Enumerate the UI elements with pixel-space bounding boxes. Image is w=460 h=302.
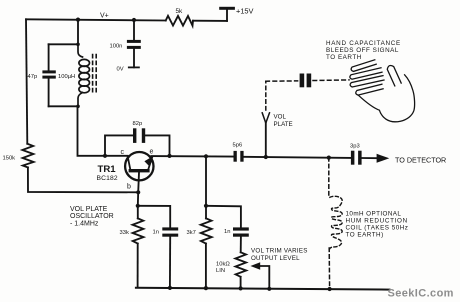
wire 33k bottom lead — [137, 244, 139, 288]
wire base lead down — [137, 173, 140, 193]
wire 82p right leg — [145, 135, 169, 156]
svg-text:10kΩ: 10kΩ — [216, 262, 230, 268]
svg-text:100n: 100n — [110, 44, 123, 50]
node tank bottom — [76, 105, 80, 109]
transistor Q1 collector line — [128, 156, 131, 169]
wire top rail right segment — [193, 20, 227, 22]
capacitor C1 47p — [42, 70, 55, 73]
svg-text:HUM REDUCTION: HUM REDUCTION — [346, 218, 408, 225]
wire tank top bar — [49, 43, 78, 45]
node rail 1n — [168, 286, 172, 290]
wire 3k7 bottom lead — [205, 244, 207, 289]
wire base node down — [137, 192, 139, 206]
node rail hum coil — [328, 287, 332, 291]
svg-text:VOL TRIM VARIES: VOL TRIM VARIES — [251, 248, 308, 255]
vol plate arrowhead — [262, 113, 269, 123]
inductor L2 hum reduction coil dashed — [330, 196, 342, 248]
wire 82p left leg — [105, 135, 133, 155]
resistor R2 150k — [22, 144, 33, 168]
node emitter branch junction — [204, 154, 208, 158]
potentiometer VR1 10k LIN — [235, 252, 246, 276]
svg-text:0V: 0V — [117, 66, 124, 72]
node rail 3k7 — [204, 286, 208, 290]
svg-text:PLATE: PLATE — [274, 121, 293, 128]
capacitor C5 5p6 — [234, 151, 237, 162]
pot wiper arrow — [250, 262, 260, 269]
node base-150k junction — [136, 190, 140, 194]
wire dashed to hand cap — [266, 80, 298, 82]
svg-text:OUTPUT LEVEL: OUTPUT LEVEL — [251, 255, 300, 262]
wire 100n bottom lead — [133, 49, 135, 67]
ground terminal 0V bar — [128, 67, 140, 69]
svg-text:e: e — [150, 149, 154, 156]
svg-text:100µH: 100µH — [58, 74, 75, 80]
node junction on rail at 100n — [132, 18, 136, 22]
capacitor C2 100n — [127, 40, 141, 43]
transistor Q1 emitter line — [148, 157, 152, 169]
node 82p right junction — [167, 154, 171, 158]
svg-text:82p: 82p — [133, 121, 143, 127]
wire emitter to 5p6 — [151, 155, 233, 158]
svg-text:10mH OPTIONAL: 10mH OPTIONAL — [346, 211, 402, 218]
svg-text:TO EARTH): TO EARTH) — [346, 232, 384, 239]
wire 3k7 top lead — [205, 206, 207, 219]
capacitor hand capacitance — [300, 74, 305, 88]
svg-text:TO DETECTOR: TO DETECTOR — [395, 156, 446, 165]
svg-text:COIL (TAKES 50Hz: COIL (TAKES 50Hz — [346, 225, 409, 232]
svg-text:LIN: LIN — [216, 268, 225, 274]
resistor R3 33k — [133, 218, 144, 243]
wire +15V riser — [226, 9, 228, 21]
wire tank bottom bar — [49, 105, 78, 107]
wire dashed hum coil top — [328, 158, 330, 196]
svg-text:V+: V+ — [100, 13, 109, 20]
node rail wiper — [267, 287, 271, 291]
svg-text:1n: 1n — [153, 230, 159, 236]
wire pot bottom lead — [240, 277, 242, 289]
transistor Q1 emitter arrow — [144, 157, 152, 166]
svg-text:5k: 5k — [176, 8, 184, 15]
node 3k7/1n junction — [204, 204, 208, 208]
svg-text:150k: 150k — [3, 156, 16, 162]
svg-text:HAND CAPACITANCE: HAND CAPACITANCE — [326, 40, 401, 47]
node 33k/1n junction — [136, 204, 140, 208]
wire 1n2 to pot — [240, 237, 242, 253]
svg-text:- 1.4MHz: - 1.4MHz — [70, 220, 99, 227]
wire bottom rail — [136, 288, 390, 290]
svg-text:TO EARTH: TO EARTH — [326, 54, 362, 61]
wire 47p lower lead — [48, 79, 50, 107]
svg-text:BLEEDS OFF SIGNAL: BLEEDS OFF SIGNAL — [326, 47, 399, 54]
wire 3p3 to detector arrow — [362, 157, 378, 159]
wire wiper to rail — [260, 266, 270, 289]
svg-text:33k: 33k — [120, 230, 129, 236]
wire collector drop from tank — [78, 106, 128, 156]
wire 33k top lead — [137, 206, 139, 219]
capacitor C6 3p3 — [351, 151, 355, 165]
wire emitter branch down — [205, 156, 207, 206]
node 82p left junction — [103, 154, 107, 158]
node rail pot — [239, 286, 243, 290]
transistor Q1 base bar — [129, 169, 150, 172]
node tank top — [76, 43, 80, 47]
svg-text:TR1: TR1 — [98, 164, 117, 175]
svg-text:BC182: BC182 — [97, 175, 118, 182]
svg-text:c: c — [121, 149, 125, 156]
svg-text:+15V: +15V — [236, 6, 254, 15]
svg-text:47p: 47p — [28, 74, 38, 80]
wire 100n top lead — [133, 20, 135, 40]
capacitor C4 1n — [162, 227, 178, 230]
svg-text:3p3: 3p3 — [350, 144, 360, 150]
vol plate antenna line — [265, 123, 267, 157]
hand drawing — [350, 60, 415, 122]
wire 5p6 to 3p3 — [244, 157, 351, 158]
node hum coil junction — [327, 156, 331, 160]
wire 47p upper lead — [48, 44, 50, 70]
wire tank top drop — [77, 20, 79, 45]
wire left rail down — [26, 19, 27, 143]
wire dashed cap to hand — [313, 79, 349, 82]
wire dashed vol plate up — [265, 81, 267, 110]
node vol plate junction — [264, 155, 268, 159]
wire 1n bottom lead — [169, 237, 171, 288]
wire dashed hum coil bottom — [328, 248, 330, 289]
node junction on rail at tank — [76, 18, 80, 22]
svg-text:b: b — [127, 184, 131, 191]
power terminal +15V bar — [219, 7, 235, 10]
svg-text:VOL: VOL — [274, 114, 287, 121]
wire 1n bar from base node — [138, 206, 170, 228]
inductor L1 core marks — [93, 55, 97, 95]
capacitor C7 1n — [233, 227, 249, 230]
capacitor C3 82p — [133, 128, 136, 143]
svg-text:3k7: 3k7 — [187, 230, 196, 236]
svg-text:SeekIC.com: SeekIC.com — [388, 288, 454, 300]
wire 1n2 bar from emitter node — [206, 206, 241, 228]
svg-text:1n: 1n — [224, 229, 230, 235]
svg-text:OSCILLATOR: OSCILLATOR — [70, 213, 114, 220]
wire top V+ rail left segment — [26, 19, 166, 20]
transistor Q1 TR1 circle — [125, 152, 153, 180]
arrow to detector — [377, 154, 390, 163]
resistor R1 5k — [166, 16, 193, 26]
svg-text:5p6: 5p6 — [233, 143, 243, 149]
inductor L1 100uH — [78, 44, 89, 106]
resistor R4 3k7 — [201, 218, 212, 243]
wire 150k bottom to base node — [28, 167, 138, 192]
